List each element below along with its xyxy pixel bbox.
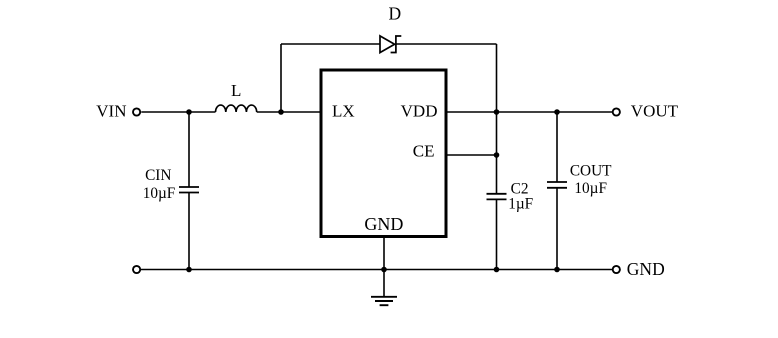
svg-text:CE: CE	[413, 141, 435, 160]
terminal GND	[613, 266, 620, 273]
wire C2 branch upper	[496, 112, 498, 194]
terminal VIN	[133, 108, 140, 115]
wire bottom rail	[141, 269, 613, 271]
wire ground stub	[383, 270, 385, 297]
svg-text:VDD: VDD	[401, 102, 438, 121]
svg-text:10µF: 10µF	[143, 185, 176, 202]
wire COUT branch upper	[556, 112, 558, 182]
wire VIN terminal to inductor	[141, 111, 215, 113]
wire inductor to LX pin	[257, 111, 321, 113]
svg-text:LX: LX	[332, 102, 355, 121]
svg-text:L: L	[231, 81, 241, 100]
svg-text:10µF: 10µF	[574, 180, 607, 197]
wire CIN branch lower	[188, 193, 190, 270]
node VDD/COUT	[554, 109, 560, 115]
node C2/rail	[494, 267, 500, 273]
diode D	[380, 36, 401, 53]
svg-text:GND: GND	[364, 214, 403, 234]
wire GND pin	[383, 236, 385, 270]
capacitor COUT	[547, 182, 567, 188]
wire diode branch left vertical	[280, 44, 282, 112]
wire CE pin	[446, 154, 497, 156]
node CE/C2	[494, 152, 500, 158]
svg-text:1µF: 1µF	[508, 196, 533, 213]
wire diode branch right vertical	[496, 44, 498, 112]
node LX/diode	[278, 109, 284, 115]
op IC box U1	[321, 70, 446, 237]
node COUT/rail	[554, 267, 560, 273]
node VIN/CIN	[186, 109, 192, 115]
svg-text:CIN: CIN	[145, 167, 171, 184]
wire CIN branch upper	[188, 112, 190, 187]
terminal bottom-left	[133, 266, 140, 273]
node CIN/ground rail	[186, 267, 192, 273]
svg-text:GND: GND	[627, 259, 665, 279]
terminal VOUT	[613, 108, 620, 115]
wire top rail right (cathode side)	[396, 43, 497, 45]
wire COUT branch lower	[556, 188, 558, 270]
capacitor CIN	[179, 187, 199, 193]
junction dots	[186, 109, 560, 272]
ground	[371, 297, 397, 305]
inductor L	[216, 105, 257, 112]
svg-text:D: D	[388, 4, 401, 24]
capacitor C2	[487, 194, 507, 200]
wire VDD to VOUT	[446, 111, 612, 113]
svg-text:COUT: COUT	[570, 163, 612, 180]
node GND pin/rail	[381, 267, 387, 273]
wire C2 branch lower	[496, 199, 498, 269]
wire top rail left (anode side)	[281, 43, 380, 45]
svg-text:VIN: VIN	[96, 102, 126, 121]
svg-text:VOUT: VOUT	[631, 102, 679, 121]
node VDD/C2	[494, 109, 500, 115]
